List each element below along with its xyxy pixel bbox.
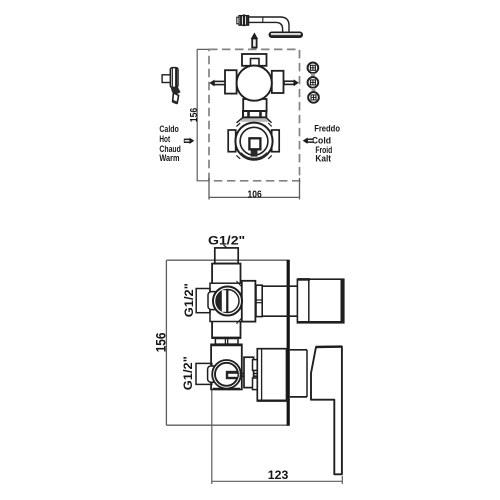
shower arm connector [237, 14, 249, 26]
svg-text:Hot: Hot [159, 134, 170, 144]
handle lever [311, 347, 342, 475]
svg-text:156: 156 [189, 108, 200, 123]
inner square [249, 138, 260, 149]
dark bottom arc accent [241, 153, 268, 159]
dark stem below square [251, 150, 258, 157]
leader tick [224, 245, 228, 249]
valve cross: bottom column [243, 99, 266, 111]
lower valve circle [212, 360, 241, 389]
knob (top right) [297, 279, 343, 323]
coupling band [243, 111, 266, 117]
plate chamfers [237, 281, 242, 324]
right arrow [284, 79, 299, 86]
left labels Caldo Hot Chaud Warm [159, 124, 181, 163]
right labels Freddo Cold Froid Kalt [312, 123, 340, 163]
screw connector 2-3 [312, 88, 316, 92]
escutcheon cap outside wall [290, 350, 307, 397]
cold block arrow [303, 138, 314, 144]
dimension 156 (top diagram) [197, 49, 209, 180]
stem block [256, 285, 262, 316]
upper body column [212, 264, 240, 338]
screw connector 1-2 [311, 73, 315, 77]
screw 1 [307, 63, 320, 74]
lower body [211, 344, 242, 389]
coupling between valves [212, 338, 240, 344]
dimension 106 [209, 178, 300, 200]
left arrow [209, 80, 225, 87]
upper-left port [196, 289, 220, 313]
valve lower circle inner [240, 127, 268, 155]
screw 2 [307, 77, 320, 88]
svg-text:123: 123 [268, 468, 289, 482]
svg-text:G1/2": G1/2" [183, 356, 195, 390]
dimension 123 [212, 390, 342, 484]
up arrow [251, 32, 258, 48]
escutcheon block [257, 349, 288, 401]
lower cap [244, 357, 254, 387]
shower head [269, 32, 302, 37]
stem lines to knob [262, 286, 297, 316]
screw 3 [307, 92, 320, 103]
transition diagonals [237, 117, 272, 123]
chamfer ticks around tabs [236, 123, 271, 159]
svg-text:Kalt: Kalt [315, 153, 331, 163]
valve lower circle outer [235, 123, 272, 160]
svg-text:106: 106 [248, 190, 262, 201]
svg-text:Caldo: Caldo [159, 124, 179, 134]
lower circle left tab [228, 130, 236, 152]
dashed wall box (top) [209, 49, 300, 180]
flange tabs [253, 360, 258, 390]
lower circle right tab [272, 130, 280, 152]
valve cross: top block [242, 54, 267, 66]
top pipe [215, 248, 238, 264]
lower stem lines [240, 374, 258, 377]
hand shower bracket icon [162, 68, 181, 105]
svg-text:Warm: Warm [159, 153, 179, 163]
upper cap [242, 281, 256, 322]
svg-text:156: 156 [153, 333, 168, 353]
transition shading [240, 118, 269, 121]
outline box (in-wall) [166, 260, 289, 425]
valve cross: left block [225, 70, 237, 93]
hot block arrow [184, 138, 195, 144]
cartridge plate [210, 283, 244, 321]
shower arm pipe [249, 17, 289, 32]
upper valve circle [213, 287, 242, 316]
svg-text:G1/2": G1/2" [184, 283, 196, 317]
valve cross: right block [272, 71, 284, 93]
svg-text:Freddo: Freddo [314, 123, 340, 133]
svg-text:G1/2": G1/2" [208, 235, 245, 247]
valve main circle [237, 66, 272, 101]
lower-left port [196, 363, 220, 384]
wall thick line [287, 260, 290, 426]
